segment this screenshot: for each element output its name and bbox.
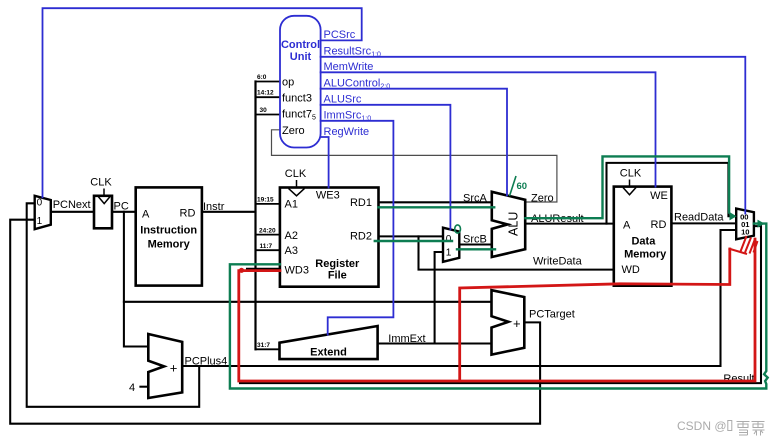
clock wedge data memory [623, 188, 636, 195]
svg-text:Memory: Memory [624, 248, 667, 260]
svg-text:ALUControl2:0: ALUControl2:0 [324, 77, 391, 90]
wire bus stub 30 to funct7 [256, 114, 280, 116]
svg-text:+: + [170, 361, 178, 376]
wire SrcB mux output to ALU [459, 243, 492, 245]
svg-text:PCSrc: PCSrc [324, 29, 356, 41]
wire ALUResult branch over Data Memory to result mux input 00 [607, 163, 737, 224]
ALU [492, 192, 525, 257]
green highlight RD2 to SrcB mux [375, 240, 452, 242]
svg-text:PCTarget: PCTarget [529, 309, 575, 321]
svg-text:ALUSrc: ALUSrc [324, 93, 362, 105]
svg-text:Control: Control [281, 39, 320, 51]
svg-text:ReadData: ReadData [674, 212, 724, 224]
svg-text:PCPlus4: PCPlus4 [185, 356, 228, 368]
svg-text:A1: A1 [285, 199, 298, 211]
wire MemWrite [321, 72, 656, 186]
svg-text:Zero: Zero [282, 125, 305, 137]
clock stub PC [103, 189, 105, 196]
svg-text:Instruction: Instruction [140, 225, 197, 237]
clock wedge register file [289, 188, 305, 195]
mux Result [736, 209, 754, 240]
svg-text:6:0: 6:0 [257, 74, 267, 81]
clock stub data memory [629, 180, 631, 187]
svg-text:31:7: 31:7 [257, 342, 270, 349]
green highlight ALUResult over Data Memory [525, 156, 729, 218]
svg-text:30: 30 [260, 107, 268, 114]
svg-text:WriteData: WriteData [533, 256, 583, 268]
svg-text:1: 1 [37, 216, 43, 227]
wire ImmExt branch to SrcB mux input 1 [435, 252, 443, 344]
svg-text:funct3: funct3 [282, 93, 312, 105]
wire WriteData [419, 236, 614, 269]
svg-text:SrcB: SrcB [463, 234, 487, 246]
svg-text:funct75: funct75 [282, 109, 316, 122]
svg-text:19:15: 19:15 [257, 197, 274, 204]
wire ReadData to result mux input 01 [671, 222, 736, 224]
svg-text:op: op [282, 77, 294, 89]
green highlight Result feedback to WD3 [230, 224, 768, 389]
svg-text:Data: Data [631, 235, 656, 247]
svg-text:RD: RD [651, 219, 667, 231]
wire PCSrc [43, 8, 362, 197]
wire ResultSrc [321, 57, 746, 214]
extend unit [280, 326, 378, 359]
register file box [280, 188, 379, 287]
control unit box [280, 16, 321, 148]
svg-text:Extend: Extend [310, 347, 347, 359]
data memory box [614, 187, 672, 286]
wire constant 4 stub [140, 386, 148, 388]
svg-text:A2: A2 [285, 230, 298, 242]
green annotation slash 60 at ALUControl [510, 176, 517, 196]
clock stub register file [296, 180, 298, 187]
svg-text:Instr: Instr [203, 201, 225, 213]
svg-text:CSDN @: CSDN @ [677, 419, 727, 433]
svg-text:CLK: CLK [285, 168, 307, 180]
svg-text:PCNext: PCNext [53, 199, 91, 211]
wire ALUResult to Data Memory A [525, 223, 614, 225]
svg-text:Register: Register [315, 258, 360, 270]
green annotation ring 0 on SrcB mux [455, 225, 461, 233]
red blob at WD3 corner [239, 268, 244, 273]
svg-text:RegWrite: RegWrite [324, 126, 370, 138]
wire bus stub 6:0 to op [256, 81, 280, 83]
svg-text:File: File [328, 270, 347, 282]
wire ALUControl [321, 89, 507, 196]
red highlight mid path from mux to ImmExt area [460, 249, 730, 381]
wire RegWrite [321, 137, 329, 188]
wire Zero from ALU to Control Unit [272, 130, 557, 202]
green highlight RD1 to SrcA [379, 206, 495, 208]
wire RD1 to SrcA [379, 201, 492, 203]
register PC [94, 196, 112, 229]
wire PCPlus4 to result mux input 10 [182, 230, 736, 366]
svg-text:WD: WD [622, 264, 640, 276]
svg-text:MemWrite: MemWrite [324, 61, 374, 73]
green arrowhead at result stub [758, 220, 765, 228]
wire PCTarget feedback to PCNext mux input 1 [10, 220, 540, 424]
svg-text:A: A [142, 209, 150, 221]
svg-text:CLK: CLK [620, 168, 642, 180]
svg-text:WD3: WD3 [285, 265, 309, 277]
adder PCPlus4 [148, 334, 182, 398]
svg-text:A3: A3 [285, 245, 298, 257]
svg-text:0: 0 [37, 198, 43, 209]
wire bus stub 14:12 to funct3 [256, 96, 280, 98]
green arrowhead at mux input 00 [730, 212, 737, 220]
svg-text:SrcA: SrcA [463, 193, 488, 205]
svg-text:ImmExt: ImmExt [388, 333, 425, 345]
svg-text:PC: PC [114, 201, 129, 213]
svg-text:24:20: 24:20 [259, 227, 276, 234]
wire bus stub 24:20 to A2 [256, 234, 280, 236]
wire bus stub 11:7 to A3 [256, 249, 280, 251]
wire PCPlus4 feedback to PCNext mux input 0 [27, 203, 200, 406]
wire PC register to Instruction Memory [112, 211, 136, 213]
wire ImmSrc [321, 121, 394, 335]
svg-text:14:12: 14:12 [257, 90, 274, 97]
wire Instr bus vertical [254, 82, 256, 350]
wire Instr [202, 211, 256, 213]
wire PC feedback vertical [124, 212, 148, 347]
watermark tofu box [728, 421, 732, 431]
svg-text:WE3: WE3 [316, 190, 340, 202]
svg-text:CLK: CLK [90, 177, 112, 189]
svg-text:Unit: Unit [290, 51, 312, 63]
red highlight Result to WD3 [239, 239, 755, 381]
svg-text:0: 0 [446, 234, 452, 245]
wire ImmExt to PCTarget adder [378, 342, 492, 344]
svg-text:WE: WE [650, 190, 668, 202]
svg-text:1: 1 [446, 248, 452, 259]
watermark glyph 2 [752, 422, 765, 436]
svg-text:60: 60 [517, 181, 528, 192]
svg-text:RD2: RD2 [350, 230, 372, 242]
mux PCNext [35, 196, 51, 229]
clock wedge PC [98, 197, 110, 204]
svg-text:11:7: 11:7 [260, 243, 273, 250]
wire ALUSrc [321, 105, 451, 230]
svg-text:Result: Result [723, 373, 754, 385]
svg-text:Zero: Zero [531, 193, 554, 205]
svg-text:+: + [513, 316, 521, 331]
watermark glyph 1 [737, 422, 750, 436]
wire Result to WD3 [247, 268, 280, 270]
wire Result mux output [240, 226, 761, 383]
wire RD2 to SrcB mux input 0 [379, 235, 444, 237]
svg-text:A: A [623, 220, 631, 232]
svg-text:10: 10 [741, 227, 749, 236]
svg-text:Memory: Memory [148, 239, 191, 251]
wire PCNext mux output to PC register [51, 211, 94, 213]
svg-text:ALU: ALU [507, 212, 521, 236]
svg-text:4: 4 [129, 382, 135, 394]
svg-text:RD1: RD1 [350, 197, 372, 209]
wire bus stub 19:15 to A1 [256, 203, 280, 205]
instruction memory box [136, 187, 202, 285]
green highlight SrcB to ALU [457, 248, 495, 250]
red hatch scribble at mux input 10 [729, 236, 758, 254]
svg-text:RD: RD [180, 208, 196, 220]
adder PCTarget [492, 290, 525, 354]
wire bus stub 31:7 to Extend [256, 348, 280, 350]
wire PC branch to PCTarget adder [124, 301, 492, 303]
mux SrcB [443, 228, 459, 262]
